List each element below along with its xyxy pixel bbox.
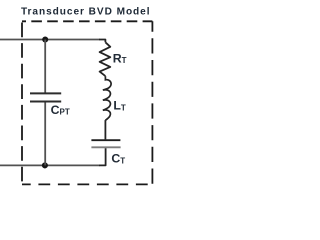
- capacitor C_PT top plate: [30, 92, 61, 94]
- wire: top lead from left edge to resistor branch: [0, 39, 100, 41]
- node: bottom junction dot: [42, 162, 48, 168]
- svg-text:CT: CT: [111, 152, 125, 166]
- inductor L_T coil (4 loops): [103, 76, 111, 120]
- node: top junction dot: [42, 36, 48, 42]
- wire: C_T lower stub to bottom lead: [99, 148, 106, 165]
- wire: C_PT lower stub: [44, 103, 46, 166]
- wire: corner into resistor: [99, 40, 105, 43]
- wire: bottom lead from left edge to series branch: [0, 164, 100, 166]
- capacitor C_T bottom plate: [91, 146, 120, 148]
- wire: C_PT upper stub: [44, 40, 46, 93]
- dashed model boundary box: bottom side: [22, 183, 152, 185]
- dashed model boundary box: top side: [22, 20, 152, 22]
- resistor R_T zigzag: [100, 42, 111, 76]
- capacitor C_PT bottom plate: [30, 101, 61, 103]
- wire: stub inductor to C_T: [104, 120, 106, 139]
- capacitor C_T top plate: [91, 139, 120, 141]
- svg-text:Transducer BVD Model: Transducer BVD Model: [21, 6, 151, 17]
- svg-text:CPT: CPT: [51, 103, 70, 117]
- svg-text:RT: RT: [113, 51, 127, 65]
- dashed model boundary box: right side: [151, 21, 153, 184]
- svg-text:LT: LT: [113, 99, 126, 113]
- dashed model boundary box: left side: [21, 21, 23, 184]
